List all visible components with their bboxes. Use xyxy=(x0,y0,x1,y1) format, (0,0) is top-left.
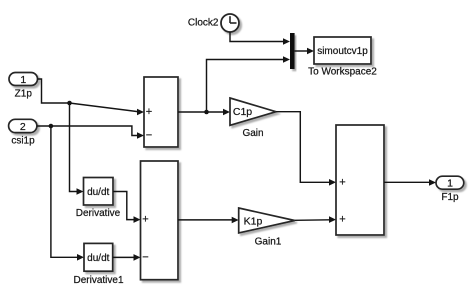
svg-text:−: − xyxy=(142,252,148,264)
outport 1 F1p xyxy=(436,176,464,203)
svg-text:du/dt: du/dt xyxy=(87,187,109,198)
svg-text:Derivative1: Derivative1 xyxy=(73,275,123,286)
svg-text:+: + xyxy=(339,213,345,225)
svg-text:+: + xyxy=(339,176,345,188)
svg-text:Clock2: Clock2 xyxy=(188,18,219,29)
svg-text:csi1p: csi1p xyxy=(11,136,35,147)
svg-text:C1p: C1p xyxy=(233,106,252,118)
svg-text:Derivative: Derivative xyxy=(76,208,121,219)
svg-text:+: + xyxy=(142,214,148,226)
To Workspace2 block simoutcv1p xyxy=(308,37,377,78)
svg-text:du/dt: du/dt xyxy=(87,253,109,264)
wire inport1 to upper sum plus xyxy=(38,79,145,115)
wire upper sum to gain C1p with junction xyxy=(178,109,230,116)
svg-text:K1p: K1p xyxy=(244,215,263,227)
wire mux to workspace xyxy=(295,48,314,55)
sum block right xyxy=(336,125,384,235)
wire junction to Derivative1 input xyxy=(51,126,84,261)
wire gain K1p to right sum input 2 xyxy=(295,216,336,223)
svg-text:1: 1 xyxy=(447,178,453,190)
sum block lower xyxy=(141,161,179,280)
svg-text:2: 2 xyxy=(20,121,26,133)
inport 1 Z1p xyxy=(9,73,38,100)
sum block upper xyxy=(144,77,178,147)
wire Derivative to lower sum plus xyxy=(113,192,141,223)
wire right sum to outport xyxy=(384,179,436,186)
svg-text:Z1p: Z1p xyxy=(15,88,33,99)
svg-text:simoutcv1p: simoutcv1p xyxy=(317,46,368,57)
svg-text:−: − xyxy=(146,130,152,142)
inport 2 csi1p xyxy=(9,119,37,146)
wire clock to mux xyxy=(230,32,290,45)
derivative block Derivative1 xyxy=(73,243,123,286)
svg-text:Gain: Gain xyxy=(242,128,263,139)
derivative block Derivative xyxy=(76,178,121,220)
gain C1p xyxy=(230,98,276,139)
clock Clock2 xyxy=(188,14,239,32)
wire Derivative1 to lower sum minus xyxy=(113,254,141,261)
wire junction to Derivative input xyxy=(70,103,84,195)
svg-text:To Workspace2: To Workspace2 xyxy=(308,67,377,78)
gain K1p xyxy=(239,208,295,248)
svg-text:F1p: F1p xyxy=(441,192,459,203)
svg-text:Gain1: Gain1 xyxy=(255,237,282,248)
svg-text:+: + xyxy=(146,106,152,118)
svg-text:1: 1 xyxy=(20,74,26,86)
wire gain C1p to right sum input 1 xyxy=(276,112,336,186)
wire inport2 to upper sum minus xyxy=(37,124,144,139)
wire lower sum to gain K1p xyxy=(178,217,239,224)
wire junction up to mux input 2 xyxy=(207,56,291,112)
mux xyxy=(290,33,295,69)
